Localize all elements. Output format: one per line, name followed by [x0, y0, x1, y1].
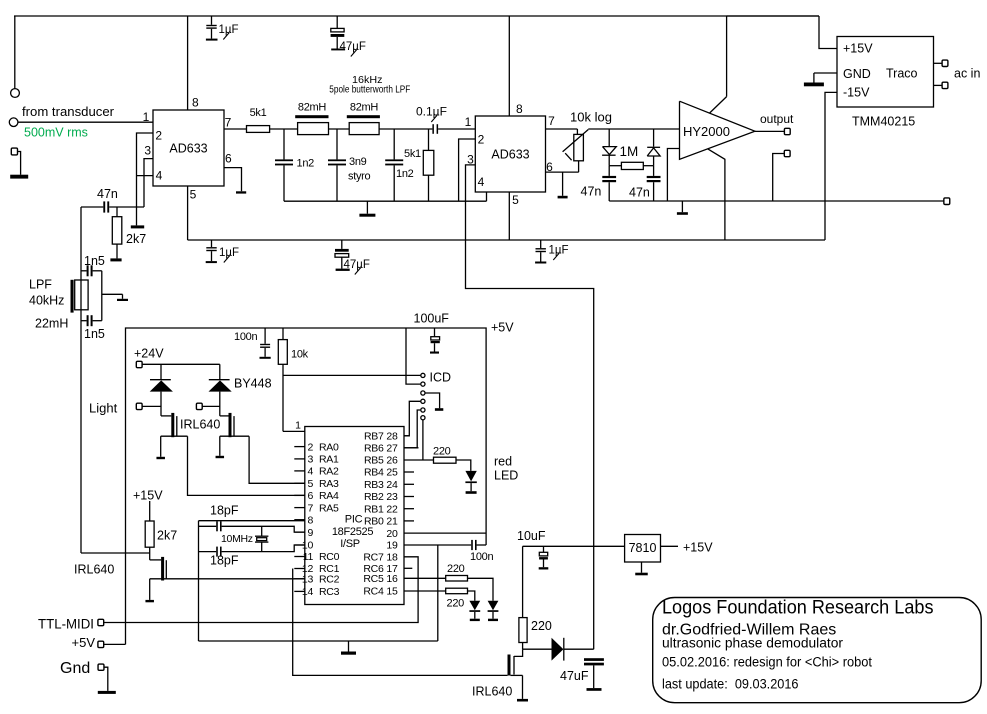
wire rail to AD633 U1 pin8 — [187, 16, 189, 110]
svg-text:BY448: BY448 — [234, 377, 272, 391]
svg-text:24: 24 — [386, 479, 398, 491]
op-amp HY2000 power amp — [680, 101, 755, 159]
wire PIC pin26 to LED resistor — [404, 459, 434, 461]
terminal TTL-MIDI — [98, 619, 104, 625]
svg-text:RA2: RA2 — [319, 466, 339, 478]
pin PIC 13 — [294, 578, 305, 580]
wire U1 pin5 down to -rail bus — [187, 186, 189, 240]
svg-text:2k7: 2k7 — [126, 232, 146, 246]
wire PIC pin12 to Q4 gate — [293, 569, 508, 676]
svg-text:1n2: 1n2 — [396, 168, 414, 180]
svg-text:6: 6 — [225, 152, 232, 166]
capacitor 47n input — [103, 201, 105, 212]
resistor 220 red LED — [434, 457, 457, 463]
svg-text:RA0: RA0 — [319, 441, 339, 453]
inductor LPF 40kHz 22mH transducer — [71, 280, 74, 313]
pin PIC 14 — [294, 590, 305, 592]
svg-text:18pF: 18pF — [210, 554, 239, 568]
svg-text:+15V: +15V — [683, 541, 713, 555]
wire 0.1uF to U2 pin1 — [438, 128, 475, 130]
svg-text:RB7: RB7 — [364, 431, 384, 443]
pin PIC 5 — [294, 482, 305, 484]
svg-text:red: red — [494, 455, 512, 469]
ground 2k7 — [110, 258, 121, 261]
svg-text:1n2: 1n2 — [297, 158, 315, 170]
wire U1 pin6 to ground — [224, 168, 242, 192]
terminal light left — [136, 403, 142, 409]
capacitor 100n vss — [471, 540, 473, 550]
wire ICD pin5 RB6 — [404, 410, 420, 448]
svg-text:7: 7 — [548, 114, 555, 128]
svg-text:7: 7 — [307, 502, 313, 514]
wire light right — [202, 405, 220, 407]
svg-text:500mV rms: 500mV rms — [24, 126, 88, 140]
svg-text:05.02.2016: redesign for <Chi>: 05.02.2016: redesign for <Chi> robot — [662, 655, 872, 670]
svg-text:RA5: RA5 — [319, 502, 339, 514]
svg-text:LED: LED — [494, 469, 518, 483]
svg-text:5: 5 — [512, 193, 519, 207]
svg-text:100uF: 100uF — [414, 312, 450, 326]
LED red — [465, 471, 476, 482]
wire Traco GND pin — [814, 72, 837, 74]
svg-text:styro: styro — [348, 171, 371, 183]
title box — [653, 598, 982, 703]
wire U2 pin6 to pot bottom — [546, 171, 579, 173]
svg-text:4: 4 — [156, 169, 163, 183]
wire 1n5 right leg — [101, 271, 103, 321]
ground Q4 — [511, 674, 523, 676]
resistor 220 RC5 — [446, 576, 468, 582]
wire +24V feed — [142, 363, 220, 365]
wire +5V in — [104, 643, 126, 645]
crystal 10MHz — [255, 535, 268, 537]
svg-text:IRL640: IRL640 — [472, 685, 512, 699]
diode BY448 right — [219, 364, 221, 380]
wire 7810 input node — [523, 545, 625, 547]
wire U1 pin2 to ground — [137, 133, 154, 225]
svg-text:2: 2 — [478, 133, 485, 147]
svg-text:18: 18 — [386, 552, 398, 564]
svg-text:10MHz: 10MHz — [221, 533, 253, 545]
microcontroller PIC 18F2525 — [305, 427, 404, 605]
capacitor 1n2 second — [393, 129, 395, 159]
capacitor 47uF bus electrolytic — [341, 240, 343, 249]
wire input to U1 pin1 — [18, 121, 153, 123]
wire rail corner to Traco +15V pin — [819, 16, 837, 49]
svg-text:4: 4 — [478, 175, 485, 189]
regulator 7810 — [625, 535, 661, 563]
svg-text:82mH: 82mH — [350, 102, 378, 114]
svg-text:18F2525: 18F2525 — [332, 526, 374, 538]
ground detector bus — [681, 201, 683, 212]
svg-text:Logos Foundation Research Labs: Logos Foundation Research Labs — [662, 598, 934, 619]
wire filter ground bus — [284, 200, 487, 202]
wire inverting input riser — [667, 149, 679, 202]
svg-text:47µF: 47µF — [340, 41, 366, 53]
pin PIC 12 — [294, 568, 305, 570]
svg-text:AD633: AD633 — [491, 148, 529, 162]
terminal input top — [11, 89, 20, 98]
wire 47n to pin3 drop — [109, 206, 144, 208]
svg-text:last update: 09.03.2016: last update: 09.03.2016 — [662, 677, 799, 692]
transistor Q1 IRL640 left — [161, 415, 171, 417]
ground filter bus — [366, 201, 368, 214]
svg-text:RC3: RC3 — [319, 586, 340, 598]
svg-text:100n: 100n — [470, 551, 493, 563]
svg-text:1: 1 — [143, 110, 150, 124]
svg-text:23: 23 — [386, 491, 398, 503]
resistor 220 charge — [519, 618, 527, 643]
svg-text:8: 8 — [192, 96, 199, 110]
svg-text:22: 22 — [386, 503, 398, 515]
svg-text:7: 7 — [225, 116, 232, 130]
wire pot wiper out — [588, 128, 679, 130]
potentiometer 10k log — [574, 134, 584, 160]
svg-text:1M: 1M — [620, 144, 639, 159]
diode BY448 left — [160, 364, 162, 380]
wire PIC pin20 VDD — [404, 532, 486, 534]
wire U2 pin7 to pot — [546, 128, 578, 130]
svg-text:IRL640: IRL640 — [74, 563, 114, 577]
svg-text:RB4: RB4 — [364, 467, 384, 479]
ground U2 pin6 — [562, 172, 564, 196]
ground PIC — [348, 641, 350, 652]
pin PIC 10 — [294, 544, 305, 546]
svg-text:RB3: RB3 — [364, 479, 384, 491]
capacitor 100uF — [434, 328, 436, 337]
wire U2 pin3 feedback net — [466, 165, 594, 649]
capacitor 1n2 first — [283, 129, 285, 159]
svg-text:220: 220 — [531, 619, 552, 633]
wire output return to bus — [773, 154, 785, 202]
svg-text:RA1: RA1 — [319, 454, 339, 466]
ground Q2 source — [219, 436, 221, 456]
svg-text:I/SP: I/SP — [340, 538, 360, 550]
svg-text:RC2: RC2 — [319, 574, 340, 586]
wire PIC pin19 VSS — [404, 544, 471, 546]
terminal +5V in — [98, 641, 104, 647]
svg-text:17: 17 — [386, 563, 398, 575]
svg-text:8: 8 — [307, 514, 313, 526]
pin PIC 8 — [294, 519, 305, 521]
svg-text:from transducer: from transducer — [22, 105, 114, 119]
svg-text:RC6: RC6 — [363, 563, 384, 575]
svg-text:5k1: 5k1 — [404, 148, 421, 160]
ground Q1 source — [160, 436, 162, 457]
wire 220 RC4 to LED — [468, 591, 475, 601]
wire ground bus bottom — [199, 640, 438, 642]
svg-text:5: 5 — [307, 478, 313, 490]
svg-text:1n5: 1n5 — [84, 254, 105, 268]
terminal Gnd — [98, 664, 104, 670]
wire ICD pin1 MCLR — [283, 374, 420, 376]
svg-text:25: 25 — [386, 467, 398, 479]
capacitor 1n5 lower — [87, 315, 89, 326]
pin PIC 6 — [294, 494, 305, 496]
ground 7810 — [641, 562, 643, 573]
svg-text:15: 15 — [386, 586, 398, 598]
wire rail to AD633 U2 pin8 — [508, 16, 510, 116]
svg-text:3: 3 — [144, 144, 151, 158]
svg-text:RB6: RB6 — [364, 443, 384, 455]
capacitor 1uF bus right — [540, 240, 542, 248]
wire U1 pin3 to 47n node — [144, 159, 153, 207]
svg-text:RB2: RB2 — [364, 491, 384, 503]
svg-text:22mH: 22mH — [35, 317, 68, 331]
terminal light right — [196, 403, 202, 409]
capacitor 47uF charge — [584, 658, 604, 661]
wire HY2000 V- stub — [708, 149, 725, 240]
svg-text:11: 11 — [303, 551, 314, 563]
wire osc top to pin8 — [199, 520, 305, 522]
wire PIC pin16 to resistor — [404, 577, 446, 579]
svg-text:100n: 100n — [234, 331, 257, 343]
wire HY2000 output — [755, 130, 785, 132]
capacitor 1n5 upper — [87, 265, 89, 276]
wire left bus to 2k7 node — [81, 552, 150, 554]
pin PIC 7 — [294, 507, 305, 509]
wire light left — [142, 405, 161, 407]
svg-text:5pole butterworth LPF: 5pole butterworth LPF — [329, 84, 410, 96]
wire LPF ground stub — [102, 293, 123, 295]
ground U1 pin6 — [236, 191, 246, 193]
wire PIC pin1 from 10k — [283, 430, 305, 432]
terminal input ground — [11, 148, 17, 155]
terminal ac in lower — [934, 84, 943, 86]
svg-text:RB5: RB5 — [364, 455, 384, 467]
svg-text:Traco: Traco — [886, 67, 918, 81]
ground Q3 source — [149, 579, 151, 600]
svg-text:AD633: AD633 — [169, 142, 207, 156]
ground U1 pins 2-4 — [131, 225, 144, 228]
wire 5k1 to node A — [270, 128, 298, 130]
pin PIC 11 — [294, 556, 305, 558]
svg-text:7810: 7810 — [629, 541, 657, 555]
wire Traco -15V to bus — [825, 92, 837, 240]
svg-text:21: 21 — [386, 516, 398, 528]
capacitor 47n right detector — [653, 166, 655, 176]
wire U2 pin4 to filter ground bus — [486, 192, 488, 201]
svg-text:18pF: 18pF — [210, 504, 239, 518]
svg-text:6: 6 — [307, 490, 313, 502]
wire -15V bus — [188, 239, 825, 241]
svg-text:47n: 47n — [97, 187, 118, 201]
svg-text:47n: 47n — [629, 186, 650, 200]
transistor Q3 IRL640 midi — [150, 559, 161, 561]
svg-text:14: 14 — [302, 586, 314, 598]
LED RC5 — [488, 601, 499, 611]
svg-text:+5V: +5V — [491, 321, 514, 335]
ground ICD — [435, 408, 443, 411]
svg-text:RB1: RB1 — [364, 503, 384, 515]
capacitor 10uF — [543, 546, 545, 552]
svg-text:10: 10 — [302, 540, 314, 552]
wire 220 to LED — [456, 460, 471, 471]
wire ICD pin4 RB7 — [404, 401, 420, 436]
capacitor 3n9 styro — [336, 129, 338, 159]
wire PIC pin22 stub — [404, 508, 414, 510]
svg-text:220: 220 — [447, 598, 465, 610]
wire filter out — [379, 128, 432, 130]
wire PIC pin23 stub — [404, 496, 414, 498]
svg-text:RA4: RA4 — [319, 490, 339, 502]
wire PIC pin15 to resistor — [404, 590, 446, 592]
terminal output hot — [784, 128, 790, 134]
svg-text:2k7: 2k7 — [157, 529, 177, 543]
svg-text:-15V: -15V — [843, 86, 870, 100]
resistor 1M — [609, 165, 621, 167]
resistor 2k7 input — [116, 207, 118, 217]
ground input — [18, 152, 21, 175]
svg-text:+24V: +24V — [134, 347, 164, 361]
wire Q1 gate to RA4 — [188, 436, 305, 495]
wire rail drop to input terminal — [14, 16, 16, 89]
wire PIC pin21 stub — [404, 520, 414, 522]
op-amp U2 AD633 multiplier — [475, 116, 545, 192]
wire 47n node — [81, 206, 103, 208]
svg-text:10k: 10k — [291, 349, 309, 361]
wire +5V rail — [126, 328, 487, 644]
svg-text:RC4: RC4 — [363, 586, 384, 598]
svg-text:+15V: +15V — [843, 42, 873, 56]
svg-text:IRL640: IRL640 — [180, 418, 220, 432]
svg-text:220: 220 — [447, 563, 465, 575]
svg-text:3n9: 3n9 — [349, 156, 367, 168]
svg-text:26: 26 — [386, 455, 398, 467]
svg-text:9: 9 — [307, 527, 313, 539]
svg-text:ac in: ac in — [954, 67, 980, 81]
wire PIC pin28 stub — [404, 435, 409, 437]
svg-text:4: 4 — [307, 466, 313, 478]
wire U1 pin7 out — [224, 128, 247, 130]
wire rail to HY2000 V+ pin — [727, 15, 819, 17]
pin PIC 4 — [294, 470, 305, 472]
inductor 82mH first — [298, 123, 329, 135]
pin PIC 2 — [294, 446, 305, 448]
wire U1 pin4 stub — [137, 175, 154, 177]
svg-text:82mH: 82mH — [298, 102, 326, 114]
svg-text:RC0: RC0 — [319, 551, 340, 563]
svg-text:27: 27 — [386, 443, 398, 455]
wire 7810 to +15V — [661, 545, 679, 547]
svg-text:1: 1 — [295, 420, 301, 432]
capacitor 47uF top electrolytic — [336, 16, 338, 28]
diode left detector — [608, 129, 610, 147]
svg-text:3: 3 — [307, 454, 313, 466]
diode right detector — [653, 129, 655, 147]
wire vss to ground bus — [437, 545, 439, 641]
capacitor 100n decoupling — [264, 328, 266, 344]
power module Traco TMM40215 — [837, 37, 934, 108]
wire detector output bus — [609, 200, 946, 202]
wire left bus down — [80, 207, 82, 553]
capacitor 47n left detector — [608, 166, 610, 176]
svg-text:47uF: 47uF — [560, 669, 589, 683]
wire 220 charge leg — [522, 546, 524, 617]
svg-text:RB0: RB0 — [364, 516, 384, 528]
wire ICD pin6 RB5 — [422, 420, 424, 460]
svg-text:5k1: 5k1 — [250, 107, 267, 119]
wire Q2 gate to RA3 — [249, 436, 305, 483]
wire pot bottom to U2 pin6 — [578, 161, 580, 172]
svg-text:Light: Light — [89, 401, 118, 416]
svg-text:2: 2 — [155, 129, 162, 143]
wire node B — [329, 128, 350, 130]
svg-text:47µF: 47µF — [344, 259, 370, 271]
capacitor 1uF top — [211, 16, 213, 25]
wire PIC pin17 stub — [404, 567, 412, 569]
svg-text:47n: 47n — [581, 185, 602, 199]
capacitor 1uF bus left — [211, 240, 213, 247]
svg-text:8: 8 — [516, 102, 523, 116]
svg-text:RC7: RC7 — [363, 552, 384, 564]
wire U2 pin2 to filter ground bus — [459, 139, 476, 201]
svg-text:ultrasonic phase demodulator: ultrasonic phase demodulator — [662, 636, 844, 651]
wire PIC pin18 to TTL-MIDI — [104, 557, 418, 623]
svg-text:+5V: +5V — [72, 635, 96, 650]
svg-text:HY2000: HY2000 — [683, 124, 730, 139]
wire PIC pin25 stub — [404, 471, 414, 473]
svg-text:2: 2 — [307, 441, 313, 453]
terminal ICD 6 — [421, 416, 425, 420]
svg-text:Gnd: Gnd — [60, 660, 90, 677]
wire PIC pin27 stub — [404, 447, 419, 449]
terminal ICD 1 — [421, 373, 425, 377]
wire top supply rail — [14, 15, 819, 17]
terminal +24V — [136, 361, 142, 367]
svg-text:0.1µF: 0.1µF — [416, 105, 447, 119]
resistor 2k7 pullup — [149, 501, 151, 521]
wire ICD pin2 +5V — [406, 328, 420, 384]
svg-text:1n5: 1n5 — [84, 327, 105, 341]
terminal input signal — [9, 118, 18, 127]
svg-text:19: 19 — [386, 540, 398, 552]
wire 220 RC5 to LED — [468, 578, 494, 600]
transistor Q2 IRL640 right — [220, 415, 229, 417]
svg-text:20: 20 — [386, 528, 398, 540]
svg-text:40kHz: 40kHz — [29, 294, 64, 308]
terminal output return — [784, 150, 790, 156]
svg-text:LPF: LPF — [29, 278, 52, 292]
wire U2 pin5 to -rail bus — [508, 192, 510, 240]
svg-text:1: 1 — [465, 115, 472, 129]
wire Gnd — [104, 667, 108, 691]
wire osc left leg — [198, 521, 200, 641]
svg-text:10k log: 10k log — [570, 110, 612, 125]
op-amp U1 AD633 multiplier — [153, 110, 224, 186]
svg-text:220: 220 — [433, 446, 451, 458]
inductor 82mH second — [349, 123, 379, 135]
svg-text:output: output — [760, 112, 794, 126]
transistor Q4 IRL640 charge — [514, 649, 523, 656]
svg-text:RA3: RA3 — [319, 478, 339, 490]
terminal ICD 2 — [421, 382, 425, 386]
pin PIC 9 — [294, 531, 305, 533]
capacitor 0.1uF coupling — [432, 124, 434, 134]
resistor 10k pullup — [282, 328, 284, 340]
wire charge node — [522, 643, 524, 650]
terminal detector bus right — [944, 198, 950, 205]
capacitor 18pF top — [199, 525, 217, 527]
resistor 220 RC4 — [446, 588, 468, 594]
svg-text:5: 5 — [190, 188, 197, 202]
wire PIC pin24 stub — [404, 483, 414, 485]
terminal ICD 3 — [421, 391, 425, 395]
svg-text:+15V: +15V — [133, 489, 163, 503]
ground Traco — [813, 73, 815, 83]
svg-text:TMM40215: TMM40215 — [852, 115, 915, 129]
diode charge — [552, 638, 564, 661]
